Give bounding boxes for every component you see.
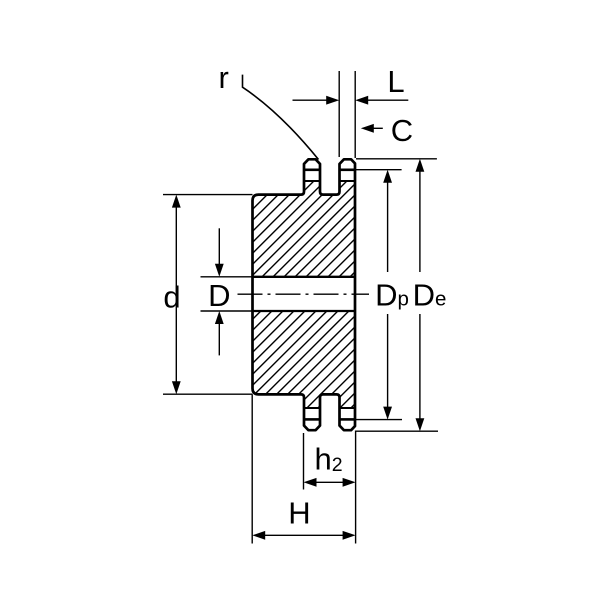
horizontal centerline (dash-dot) — [238, 293, 370, 295]
dimension D — [218, 228, 220, 355]
extension line Dp bottom — [356, 419, 403, 421]
svg-text:D: D — [208, 278, 230, 313]
section hatching — [245, 69, 360, 525]
pitch line across top teeth — [304, 169, 355, 172]
extension line right (h2/H) — [355, 431, 357, 544]
extension line H left — [251, 394, 253, 543]
dimension d — [175, 207, 177, 383]
extension lines for d — [163, 195, 253, 395]
svg-text:d: d — [163, 280, 180, 315]
bore line bottom — [253, 310, 356, 312]
sprocket body outline (section silhouette) — [253, 159, 356, 430]
dimension De — [419, 171, 421, 419]
dimension Dp — [387, 182, 389, 408]
root line across top teeth — [304, 180, 355, 182]
pitch line across bottom teeth — [304, 418, 355, 421]
extension line Dp top — [356, 169, 402, 171]
dimension h2 — [315, 481, 344, 483]
bore line top — [253, 276, 356, 278]
svg-text:C: C — [391, 113, 413, 148]
extension lines for D — [201, 277, 253, 311]
extension lines for L — [339, 71, 355, 158]
extension line h2 left — [303, 433, 305, 490]
svg-text:r: r — [219, 60, 229, 95]
svg-text:H: H — [288, 496, 310, 531]
dimension L — [293, 99, 409, 101]
dimension C arrow — [372, 127, 383, 129]
leader line for r — [243, 75, 319, 160]
extension line De top — [356, 158, 437, 160]
dimension H — [263, 534, 345, 536]
root line across bottom teeth — [304, 407, 355, 409]
extension line De bottom — [356, 430, 438, 432]
svg-text:L: L — [387, 64, 404, 99]
